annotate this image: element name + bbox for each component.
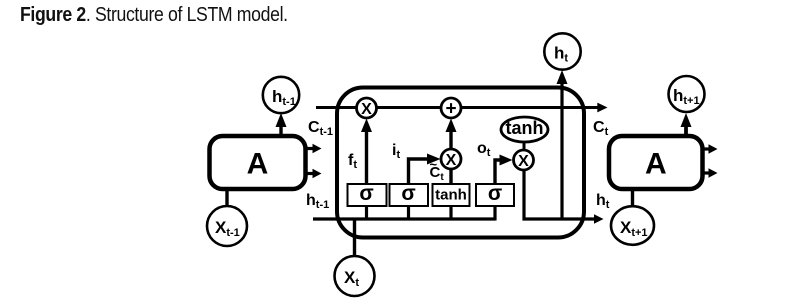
arrow: right A upper output (703, 144, 718, 153)
arrow: left A upper output (306, 144, 322, 153)
arrow: left A lower output (306, 169, 322, 178)
label h(t-1) near input line (306, 192, 329, 211)
label o(t) (477, 140, 491, 159)
gate stubs below boxes (367, 206, 496, 221)
label C~(t) (430, 157, 445, 183)
svg-text:Ct-1: Ct-1 (308, 119, 333, 138)
svg-text:σ: σ (488, 182, 502, 205)
svg-text:X: X (361, 101, 372, 118)
node h(t) circle (544, 33, 580, 69)
label f(t) (348, 152, 357, 171)
gate box tanh (candidate) (433, 184, 470, 206)
multiply node on C line (forget) (357, 98, 377, 118)
svg-text:Ct: Ct (593, 119, 609, 138)
right block A (609, 136, 703, 189)
wire: x(t) input (353, 219, 356, 256)
label i(t) (392, 142, 400, 161)
wire: left A to h(t-1) (276, 113, 287, 136)
svg-text:+: + (445, 99, 456, 120)
wire: tanh ellipse to output multiply (523, 142, 526, 151)
wire: cell state line C (316, 103, 608, 113)
wire: right A to x(t+1) (631, 189, 634, 207)
label C(t-1) (308, 119, 333, 138)
multiply node (input x candidate) (441, 149, 461, 169)
tanh ellipse on cell state (501, 117, 548, 142)
node x(t) circle (335, 256, 375, 296)
wire: input gate i to multiply (409, 154, 441, 185)
wire: candidate multiply up to add (446, 119, 457, 150)
svg-text:A: A (247, 148, 269, 181)
arrow: forget gate f to multiply (361, 119, 372, 185)
gate box sigma 2 (input) (390, 182, 429, 206)
gate box sigma 1 (forget) (348, 182, 387, 206)
svg-text:tanh: tanh (506, 118, 544, 138)
node h(t-1) circle (263, 77, 299, 113)
gate box sigma 3 (output) (476, 182, 514, 206)
left block A (210, 136, 306, 189)
wire: output gate o to multiply (495, 155, 513, 185)
add node on C line (441, 98, 461, 120)
arrow: right A lower output (703, 168, 718, 177)
multiply node (output) (514, 150, 534, 170)
svg-text:X: X (518, 153, 529, 170)
svg-text:σ: σ (401, 182, 415, 205)
wire: left A to x(t-1) (225, 189, 228, 207)
svg-text:tanh: tanh (435, 187, 467, 204)
wire: hidden state input line h(t-1) (313, 217, 495, 220)
svg-text:ht: ht (596, 192, 610, 211)
label h(t) right (596, 192, 610, 211)
wire: right A to h(t+1) (681, 113, 692, 136)
svg-text:σ: σ (359, 182, 373, 205)
svg-text:A: A (645, 148, 667, 181)
wire: tanh box to candidate multiply (449, 169, 452, 184)
caption: Figure 2. Structure of LSTM model. (20, 4, 288, 27)
node x(t-1) circle (207, 206, 247, 246)
node x(t+1) circle (611, 206, 654, 245)
LSTM cell body (337, 88, 584, 238)
svg-text:ht-1: ht-1 (306, 192, 329, 211)
svg-text:~: ~ (430, 157, 438, 172)
node h(t+1) circle (669, 76, 705, 112)
svg-text:X: X (446, 152, 457, 169)
wire: h(t) branch up to circle (557, 70, 568, 219)
wire: output multiply down and right (h out) (524, 170, 604, 224)
label C(t) (593, 119, 609, 138)
